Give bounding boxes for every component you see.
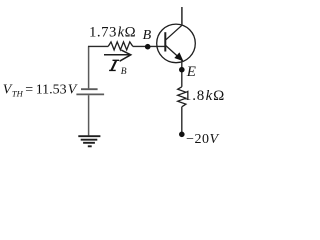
node B dot bbox=[145, 44, 151, 50]
node E dot bbox=[179, 67, 185, 73]
svg-text:B: B bbox=[143, 28, 152, 43]
wire resistor R2 to -20V node bbox=[181, 107, 183, 135]
svg-text:1.73kΩ: 1.73kΩ bbox=[89, 25, 136, 41]
battery V_TH bottom plate (long) bbox=[76, 93, 104, 95]
collector lead up bbox=[181, 7, 183, 25]
node E label bbox=[186, 64, 196, 80]
svg-text:1.8kΩ: 1.8kΩ bbox=[184, 88, 225, 104]
label I_B bbox=[109, 60, 127, 77]
transistor base bar bbox=[164, 32, 166, 51]
svg-text:TH: TH bbox=[12, 88, 24, 98]
current arrow I_B bbox=[104, 50, 131, 61]
resistor R2 1.8k vertical zigzag bbox=[178, 87, 186, 107]
wire resistor to transistor base bbox=[133, 45, 166, 47]
wire battery to ground bbox=[88, 95, 90, 135]
svg-text:=: = bbox=[25, 82, 33, 97]
label 1.73kΩ bbox=[89, 25, 136, 41]
transistor emitter diagonal with arrow bbox=[166, 46, 183, 61]
resistor R1 1.73k zigzag bbox=[108, 42, 133, 50]
svg-text:11.53: 11.53 bbox=[36, 82, 67, 97]
svg-text:E: E bbox=[186, 64, 196, 80]
svg-text:V: V bbox=[68, 82, 78, 97]
svg-text:−20V: −20V bbox=[186, 132, 219, 147]
ground symbol bbox=[78, 136, 100, 146]
node -20V dot bbox=[179, 132, 185, 138]
label 1.8kΩ bbox=[184, 88, 225, 104]
svg-text:B: B bbox=[121, 67, 127, 77]
label -20V bbox=[186, 132, 219, 147]
node B label bbox=[143, 28, 152, 43]
transistor collector diagonal bbox=[166, 25, 182, 40]
battery V_TH top plate (short) bbox=[81, 88, 98, 90]
emitter lead down to node E and resistor bbox=[181, 60, 183, 87]
label V_TH = 11.53 V bbox=[3, 82, 78, 98]
transistor Q1 circle bbox=[157, 24, 196, 63]
wire left vertical (battery to top corner) bbox=[88, 46, 90, 88]
wire top horizontal (corner to resistor R1) bbox=[88, 45, 108, 47]
